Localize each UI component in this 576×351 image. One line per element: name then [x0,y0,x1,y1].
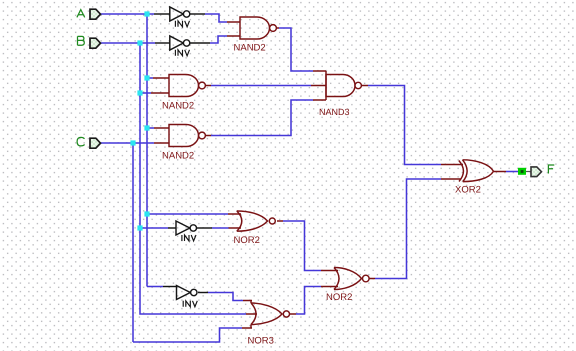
wire NAND2c output to NAND3 bottom input [206,100,327,136]
wire net A branch to NAND2b top input [147,77,169,79]
wire net A branch to NOR2a top input [147,213,241,215]
wire net A stub into INV1 [154,13,170,15]
wire net A branch to INV4 input [147,286,177,288]
nand gate NAND3 [319,71,361,117]
input pin B [78,36,101,48]
junction node B-INV2 (140,43) [137,40,142,45]
nor gate NOR2b [326,268,369,304]
nand gate NAND2c [162,125,205,162]
wire INV2 output to NAND2a bottom input [190,36,240,43]
wire net B vertical bus x=140 [139,43,141,314]
wire net A vertical bus x=147 [146,14,148,287]
wire net A horizontal from pin A [100,13,154,15]
svg-text:NOR3: NOR3 [248,336,274,347]
nand gate NAND2a top [234,17,277,54]
junction node B-NAND2b (140,93) [137,90,142,95]
junction node B-INV3 (140,228) [137,225,142,230]
junction node A-NAND2b (147,78) [144,75,149,80]
junction node A-NAND2c (147,128) [144,125,149,130]
xor gate XOR2 [455,160,494,196]
inverter INV2 [170,36,190,56]
svg-text:XOR2: XOR2 [455,185,481,196]
wire INV1 output to NAND2a top input [190,14,240,22]
junction node C (133,143) [130,140,135,145]
svg-text:NAND2: NAND2 [162,101,194,112]
wire net C horizontal from pin C [100,142,169,144]
wire net C bottom run to NOR3 bottom input [133,328,252,342]
inverter INV1 [170,7,190,27]
wire NAND3 output to XOR2 top input [362,86,464,165]
svg-text:NOR2: NOR2 [326,292,352,303]
inverter INV3 [176,221,197,241]
output pin F [531,165,554,177]
nor gate NOR3 [248,301,290,347]
wire NAND2b output to NAND3 middle input [206,85,327,87]
wire INV4 output to NOR3 top input [198,293,252,301]
svg-text:NAND3: NAND3 [319,107,350,117]
wire net B stub into INV2 [155,42,170,44]
wire net B branch to NOR3 middle input [140,313,257,316]
wire NOR2a output to NOR2b top input [277,221,338,271]
junction node A-NOR2a (147,214) [144,211,149,216]
nand gate NAND2b [162,75,205,112]
wire net A branch to NAND2c top input [147,127,169,129]
wire NOR2b output to XOR2 bottom input [369,179,461,279]
wire net C vertical bus x=133 [132,143,134,342]
svg-text:NAND2: NAND2 [162,151,194,162]
input pin C [77,137,100,148]
svg-text:NOR2: NOR2 [234,235,260,246]
wire net B branch to NAND2b bottom input [140,92,169,94]
junction node A-INV1 (147,14) [144,11,149,16]
wire XOR2 output to pin F [494,171,532,173]
wire INV3 output to NOR2a bottom input [197,227,241,229]
wire NAND2a output to NAND3 top input [277,28,327,71]
nor gate NOR2a [234,211,276,246]
net stop marker before pin F [518,168,526,175]
input pin A [77,9,101,19]
wire net B branch to INV3 input [140,227,176,229]
inverter INV4 [177,286,198,307]
wire net B horizontal from pin B [100,42,155,44]
wire NOR3 output to NOR2b bottom input [290,287,339,315]
svg-text:NAND2: NAND2 [234,43,266,54]
